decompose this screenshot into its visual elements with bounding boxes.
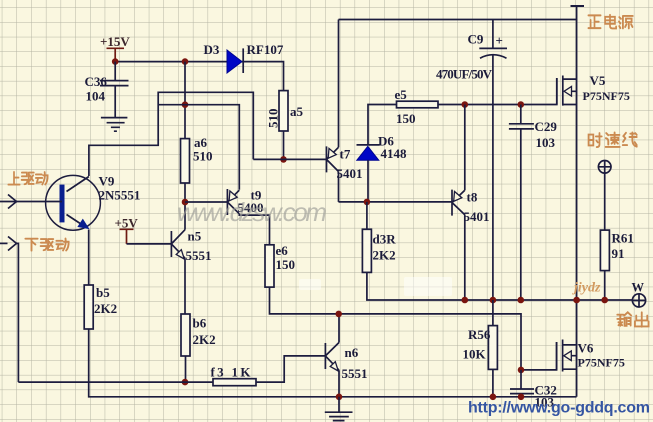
node: C29 on output rail [518, 297, 525, 304]
wire: top positive rail [339, 6, 577, 20]
transistor V6 (MOSFET P75NF75) [557, 340, 577, 372]
svg-text:b6: b6 [193, 316, 207, 331]
svg-text:n5: n5 [188, 229, 202, 244]
node: C9 on output rail [490, 297, 497, 304]
svg-text:http://www.go-gddq.com: http://www.go-gddq.com [468, 400, 650, 417]
wire: e5 right to V5 gate [438, 78, 557, 105]
transistor n5 (NPN 5551) [171, 230, 185, 259]
wire: V9 emitter down to b5 [88, 230, 90, 286]
svg-text:4148: 4148 [381, 146, 408, 161]
node: R61 on output rail [601, 297, 608, 304]
node: C32 on bottom rail [518, 394, 525, 401]
capacitor C29 [509, 124, 534, 129]
svg-text:n6: n6 [345, 345, 359, 360]
node: t8 emitter column on e5 wire [462, 101, 469, 108]
svg-text:a5: a5 [290, 104, 304, 119]
capacitor C32 [510, 389, 534, 394]
wire: +15V rail to a5 top [115, 62, 283, 91]
wire: C32 bottom to bottom rail [520, 394, 522, 397]
svg-text:W: W [632, 281, 645, 295]
resistor f3 [213, 379, 256, 386]
svg-text:104: 104 [86, 89, 106, 104]
diode D3 [227, 48, 243, 73]
svg-text:t8: t8 [467, 190, 478, 205]
wire: C36 top lead [114, 62, 116, 81]
node: t9 base tap [182, 199, 189, 206]
node: b6 joins drive rail [182, 379, 189, 386]
resistor b5 [84, 285, 93, 329]
label 输出 [617, 312, 648, 326]
svg-text:P75NF75: P75NF75 [578, 356, 625, 370]
wire: test point to R61 [604, 173, 606, 230]
arrow: 上驱动 input [8, 195, 17, 209]
wire: R56 leads [492, 300, 494, 397]
wire: +5V to n5 base [127, 243, 172, 245]
wire: e6 bottom to gate rail [270, 287, 522, 370]
wire: V9 collector net (collector up, over to t7 base column) [89, 92, 253, 176]
wire: branch to t9 emitter column [158, 105, 239, 190]
transistor t9 (PNP 5400) [227, 189, 239, 215]
svg-text:C36: C36 [85, 74, 108, 89]
svg-text:D3: D3 [204, 42, 220, 57]
svg-text:R56: R56 [468, 327, 491, 342]
svg-text:+: + [496, 33, 503, 48]
label 正电源 [588, 15, 632, 29]
svg-text:5401: 5401 [337, 166, 363, 181]
resistor R61 [600, 230, 609, 271]
svg-text:P75NF75: P75NF75 [583, 89, 630, 103]
wire: C29 top lead [520, 105, 522, 124]
power symbol +5V [120, 229, 134, 244]
wire: V9 collector diagonal [67, 177, 89, 192]
svg-text:jiydz: jiydz [572, 281, 601, 296]
resistor e5 [397, 101, 439, 108]
wire: V5/V6 drain-source column [576, 20, 578, 397]
node: R56 on bottom rail [490, 394, 497, 401]
wire: V9 base input [0, 201, 62, 203]
svg-text:510: 510 [193, 149, 213, 164]
resistor a6 [181, 139, 190, 183]
transistor V9 (2N5551, circle style) [46, 175, 101, 230]
power symbol +15V [107, 48, 125, 61]
arrow: 下驱动 input [8, 237, 17, 251]
svg-text:5401: 5401 [464, 209, 490, 224]
svg-text:b5: b5 [96, 285, 110, 300]
svg-text:470UF/50V: 470UF/50V [436, 67, 493, 82]
svg-text:2N5551: 2N5551 [99, 188, 141, 203]
svg-text:d3R: d3R [373, 232, 397, 247]
node: n6 emitter on bottom rail [336, 394, 343, 401]
label 时速线 [589, 133, 637, 148]
resistor d3R [362, 229, 371, 272]
node: +15V stub joins rail [112, 58, 119, 65]
wire: a6 bottom to n5 collector [184, 183, 186, 230]
wire: d3R top lead [366, 202, 368, 229]
svg-text:C9: C9 [468, 32, 484, 47]
wire: t8 collector down to output rail [464, 215, 466, 300]
transistor V5 (MOSFET P75NF75) [557, 76, 577, 106]
wire: rail down to a6 [184, 62, 186, 139]
capacitor C9 (electrolytic) [479, 48, 507, 58]
svg-text:www.dzsw.com: www.dzsw.com [177, 197, 327, 227]
wire: b6 bottom to drive rail [185, 356, 187, 382]
svg-text:91: 91 [612, 246, 625, 261]
svg-text:10K: 10K [463, 347, 487, 362]
svg-text:f3 1K: f3 1K [211, 365, 252, 380]
wire: t7 base wire [253, 158, 326, 160]
wire: e5 left lead down to D6 [368, 105, 397, 145]
wire: f3 to n6 base [256, 356, 325, 382]
terminal ⊕ (时速线 test point) [598, 161, 611, 174]
node: D6 on base rail [364, 199, 371, 206]
wire: t8 emitter column [464, 105, 466, 191]
wire: a5 bottom to t7 base rail [283, 131, 285, 159]
resistor e6 [265, 245, 274, 287]
svg-text:+5V: +5V [115, 216, 139, 231]
node: t8 collector on output rail [462, 297, 469, 304]
wire: C32 top lead [520, 370, 522, 389]
svg-text:510: 510 [266, 109, 281, 129]
svg-text:V9: V9 [99, 174, 115, 189]
wire: 下驱动 input [0, 243, 18, 382]
wire: b5 down and bottom rail to V6 source [89, 329, 577, 397]
node: n6 collector on gate rail [335, 311, 342, 318]
svg-text:R61: R61 [612, 231, 634, 246]
node: a5 joins t7 base wire [280, 156, 287, 163]
transistor n6 (NPN 5551) [325, 314, 339, 371]
svg-text:150: 150 [396, 111, 416, 126]
capacitor C36 [100, 81, 129, 118]
svg-text:103: 103 [536, 135, 556, 150]
wire: d3R bottom to output rail [367, 272, 633, 300]
resistor b6 [181, 314, 190, 356]
wire: t9 base [185, 201, 227, 203]
terminal ⊕ (W output) [632, 294, 645, 307]
svg-text:C29: C29 [535, 119, 558, 134]
wire: t9 collector to e6 top [239, 214, 269, 245]
wire: t7 collector down [338, 172, 340, 202]
ground (main) [325, 397, 353, 421]
diode D6 [357, 145, 380, 160]
wire: t7 emitter up to top rail [338, 20, 340, 148]
wire: C9 top lead [492, 20, 494, 49]
wire: gate rail to V6 gate [521, 342, 557, 370]
resistor a5 [279, 91, 288, 131]
node: V6 gate / C32 junction [518, 367, 525, 374]
node: C29 tap on gate wire [518, 101, 525, 108]
wire: t7-t8 base rail [339, 201, 453, 203]
transistor t8 (PNP 5401) [452, 190, 465, 216]
svg-text:5551: 5551 [342, 366, 368, 381]
ground (below C36) [101, 118, 128, 132]
wire: R61 bottom to output rail [604, 271, 606, 300]
wire: D6 to t7/t8 rail [367, 160, 369, 202]
node: a6 branch on +15V rail [182, 58, 189, 65]
svg-text:e5: e5 [395, 87, 408, 102]
svg-text:150: 150 [276, 257, 296, 272]
svg-text:RF107: RF107 [247, 42, 284, 57]
svg-text:V6: V6 [578, 341, 594, 356]
svg-text:5551: 5551 [186, 248, 212, 263]
svg-text:e6: e6 [276, 243, 289, 258]
power terminal bar (正电源) [571, 5, 585, 7]
svg-text:2K2: 2K2 [193, 332, 216, 347]
wire: n5 emitter down to b6 [184, 258, 186, 314]
svg-text:2K2: 2K2 [373, 248, 396, 263]
transistor t7 (PNP 5401) [327, 146, 339, 172]
svg-text:t7: t7 [340, 147, 351, 162]
node: a6 top / collector net branch [182, 101, 189, 108]
watermark block (faint) [299, 277, 452, 296]
svg-text:+15V: +15V [100, 34, 130, 49]
label 上驱动 [8, 172, 47, 185]
resistor R56 [488, 326, 497, 370]
wire: n6 emitter to ground rail [338, 370, 340, 397]
svg-text:2K2: 2K2 [94, 301, 117, 316]
label 下驱动 [25, 239, 68, 251]
wire: drive rail to f3 [18, 381, 213, 383]
wire: C29 bottom lead to output rail [520, 129, 522, 300]
node: MOSFET column on output rail [573, 297, 580, 304]
svg-text:V5: V5 [590, 73, 606, 88]
wire: C9 bottom lead to output rail [492, 56, 494, 301]
